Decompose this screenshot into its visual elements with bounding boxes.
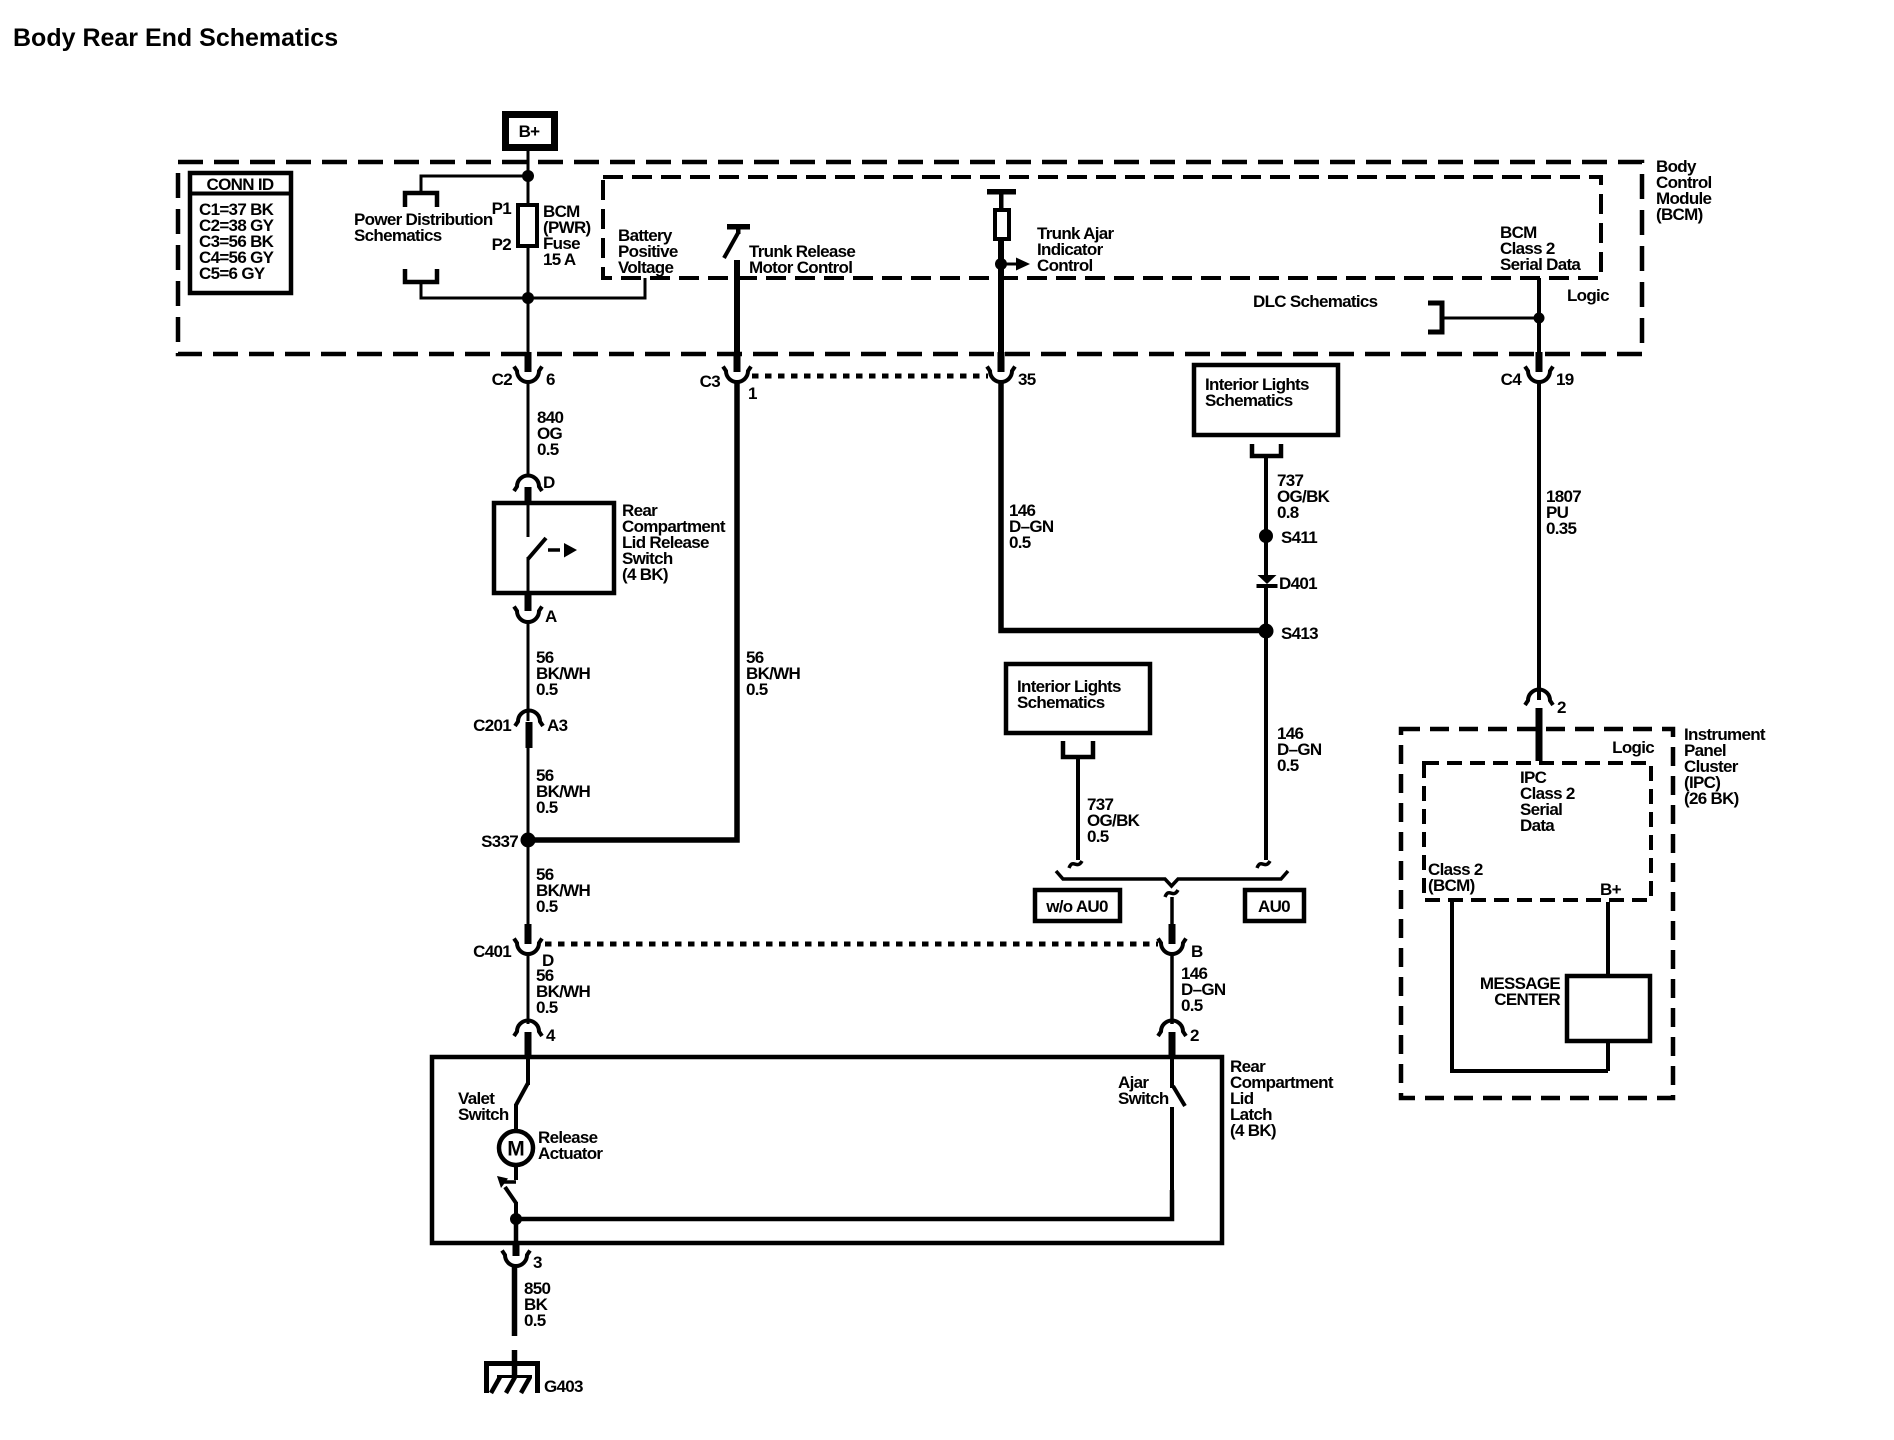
rear compartment lid latch box bbox=[432, 1057, 1222, 1243]
dotted harness line C401 to B bbox=[545, 942, 1158, 947]
svg-text:C3: C3 bbox=[700, 372, 721, 391]
wire C4 to IPC connector 2 bbox=[1537, 382, 1541, 700]
svg-text:Switch: Switch bbox=[458, 1105, 509, 1124]
svg-text:0.5: 0.5 bbox=[524, 1311, 546, 1330]
svg-text:C201: C201 bbox=[473, 716, 511, 735]
wire C201 to S337 bbox=[527, 748, 530, 840]
wire B+ down to junction bbox=[527, 151, 530, 176]
svg-text:0.5: 0.5 bbox=[1277, 756, 1299, 775]
svg-text:0.35: 0.35 bbox=[1546, 519, 1577, 538]
svg-text:(26 BK): (26 BK) bbox=[1684, 789, 1739, 808]
connector B (latch harness) bbox=[1158, 924, 1203, 961]
wire break squiggle (merged output) bbox=[1165, 890, 1178, 897]
connector pin 4 (latch) bbox=[514, 1021, 556, 1059]
rear compartment lid release switch S bbox=[494, 501, 726, 593]
IPC instrument panel cluster outer dashed box bbox=[1401, 729, 1673, 1098]
wire power distribution lower bracket to bus bbox=[421, 278, 645, 298]
svg-text:Logic: Logic bbox=[1612, 738, 1654, 757]
wire D401 to S413 bbox=[1264, 588, 1268, 632]
B+ power symbol bbox=[506, 115, 555, 148]
svg-text:D401: D401 bbox=[1279, 574, 1317, 593]
resistor: trunk ajar indicator pull-up bbox=[987, 189, 1016, 239]
svg-text:Body Rear End Schematics: Body Rear End Schematics bbox=[13, 24, 338, 52]
wire 35 branch down and to S413 bbox=[1001, 382, 1266, 631]
wire merge to connector B bbox=[1170, 897, 1174, 926]
actuator driven switch with actuation arrow bbox=[497, 1165, 516, 1219]
connector pin 35 bbox=[987, 352, 1036, 389]
IPC inner logic dashed box bbox=[1424, 763, 1651, 900]
svg-text:(4 BK): (4 BK) bbox=[1230, 1121, 1276, 1140]
svg-text:0.8: 0.8 bbox=[1277, 503, 1299, 522]
connector A (lid release switch) bbox=[514, 593, 557, 626]
wire S337 to C401 bbox=[527, 840, 530, 926]
svg-text:0.5: 0.5 bbox=[1181, 996, 1203, 1015]
svg-text:C2: C2 bbox=[492, 370, 513, 389]
svg-text:C4: C4 bbox=[1501, 370, 1523, 389]
svg-text:0.5: 0.5 bbox=[536, 998, 558, 1017]
svg-text:Schematics: Schematics bbox=[1205, 391, 1293, 410]
splice node S337 bbox=[521, 833, 536, 848]
svg-text:(BCM): (BCM) bbox=[1428, 876, 1475, 895]
fuse BCM (PWR) Fuse 15 A bbox=[492, 176, 591, 269]
svg-text:0.5: 0.5 bbox=[746, 680, 768, 699]
svg-text:6: 6 bbox=[546, 370, 555, 389]
svg-text:Control: Control bbox=[1037, 256, 1093, 275]
svg-text:Switch: Switch bbox=[1118, 1089, 1169, 1108]
svg-text:D: D bbox=[543, 473, 555, 492]
ground G403 bbox=[484, 1361, 583, 1396]
splice node S413 bbox=[1259, 624, 1274, 639]
option merge bracket bbox=[1056, 871, 1288, 886]
svg-text:B+: B+ bbox=[1600, 880, 1622, 899]
svg-text:0.5: 0.5 bbox=[537, 440, 559, 459]
wire resistor to pin 35 bbox=[998, 239, 1004, 355]
svg-text:Data: Data bbox=[1520, 816, 1555, 835]
wire B to pin 2 bbox=[1170, 954, 1174, 1024]
reference bracket under lower interior lights box bbox=[1063, 741, 1093, 757]
node junction actuator to ajar return bbox=[510, 1213, 522, 1225]
wire lower interior lights to option merge bbox=[1076, 757, 1080, 860]
svg-text:Schematics: Schematics bbox=[354, 226, 442, 245]
connector C4 pin 19 bbox=[1501, 352, 1574, 389]
node junction at fuse top bbox=[522, 170, 534, 182]
Power Distribution Schematics reference brackets bbox=[354, 193, 493, 282]
wire C2 to connector D bbox=[527, 382, 530, 475]
connector pin 3 (latch bottom) bbox=[502, 1242, 542, 1272]
svg-text:P1: P1 bbox=[492, 199, 512, 218]
svg-text:1: 1 bbox=[748, 384, 757, 403]
splice node S411 bbox=[1259, 529, 1273, 543]
wire S411 to D401 bbox=[1264, 536, 1268, 576]
transistor output: trunk release motor control driver bbox=[724, 224, 855, 277]
svg-text:0.5: 0.5 bbox=[536, 897, 558, 916]
connector D (lid release switch) bbox=[514, 473, 555, 504]
wire A to C201 bbox=[527, 622, 530, 721]
connector C3 pin 1 bbox=[700, 352, 757, 403]
diode D401 bbox=[1257, 574, 1318, 593]
wire break squiggle (AU0 leg) bbox=[1257, 861, 1270, 868]
svg-text:A: A bbox=[545, 607, 557, 626]
wire pin 3 to ground (with break) bbox=[512, 1266, 518, 1336]
option label box AU0 bbox=[1245, 890, 1304, 921]
reference bracket under upper interior lights box bbox=[1252, 444, 1281, 456]
wire junction to power distribution bracket bbox=[421, 176, 528, 191]
svg-text:C5=6 GY: C5=6 GY bbox=[199, 264, 266, 283]
BCM inner dashed box bbox=[603, 177, 1601, 278]
wire class 2 (BCM) leg to message center bbox=[1452, 902, 1608, 1071]
svg-text:C401: C401 bbox=[473, 942, 511, 961]
svg-text:Actuator: Actuator bbox=[538, 1144, 603, 1163]
DLC reference bracket bbox=[1428, 303, 1442, 332]
svg-text:P2: P2 bbox=[492, 235, 512, 254]
node junction on serial data line bbox=[1534, 313, 1545, 324]
wire interior lights to S411 bbox=[1264, 456, 1268, 536]
connector C2 pin 6 bbox=[492, 352, 555, 389]
svg-text:Serial Data: Serial Data bbox=[1500, 255, 1581, 274]
svg-text:0.5: 0.5 bbox=[1087, 827, 1109, 846]
svg-text:4: 4 bbox=[546, 1026, 556, 1045]
wire B+ leg to message center bbox=[1606, 902, 1610, 976]
wire S337 to C3 branch (horizontal and vertical riser) bbox=[528, 382, 737, 840]
wire break squiggle (w/o AU0 leg) bbox=[1069, 861, 1082, 868]
dotted harness line C3 to 35 bbox=[752, 374, 988, 379]
svg-text:M: M bbox=[507, 1138, 525, 1161]
svg-text:w/o AU0: w/o AU0 bbox=[1045, 897, 1108, 916]
valet switch bbox=[458, 1057, 528, 1132]
node junction at fuse bottom bus bbox=[522, 292, 534, 304]
svg-text:S411: S411 bbox=[1281, 528, 1317, 547]
svg-text:A3: A3 bbox=[547, 716, 568, 735]
svg-text:15 A: 15 A bbox=[543, 250, 576, 269]
svg-text:S337: S337 bbox=[481, 832, 518, 851]
svg-text:CENTER: CENTER bbox=[1494, 990, 1560, 1009]
svg-text:Schematics: Schematics bbox=[1017, 693, 1105, 712]
node trunk ajar sense junction with arrow bbox=[995, 224, 1115, 275]
wire ajar switch return (horizontal) bbox=[516, 1190, 1172, 1219]
wire DLC bracket to serial data line bbox=[1442, 317, 1539, 320]
connector ID table bbox=[188, 173, 293, 293]
motor M release actuator bbox=[499, 1128, 603, 1165]
connector pin 2 (IPC) bbox=[1525, 690, 1566, 762]
svg-text:(BCM): (BCM) bbox=[1656, 205, 1703, 224]
svg-text:B: B bbox=[1191, 942, 1203, 961]
svg-text:G403: G403 bbox=[544, 1377, 583, 1396]
svg-text:Logic: Logic bbox=[1567, 286, 1609, 305]
connector pin 2 (latch) bbox=[1158, 1021, 1199, 1059]
connector C201 pin A3 bbox=[473, 711, 567, 749]
svg-text:DLC Schematics: DLC Schematics bbox=[1253, 292, 1378, 311]
option label box w/o AU0 bbox=[1035, 890, 1120, 921]
svg-text:AU0: AU0 bbox=[1258, 897, 1290, 916]
wire C401 to pin 4 bbox=[527, 954, 530, 1024]
interior lights schematics box (upper) bbox=[1194, 365, 1338, 435]
BCM Body Control Module outer dashed box bbox=[178, 162, 1642, 354]
wire BCM class2 serial data to C4 pin bbox=[1537, 278, 1541, 355]
svg-text:CONN ID: CONN ID bbox=[207, 175, 274, 194]
svg-text:3: 3 bbox=[533, 1253, 542, 1272]
svg-text:Motor Control: Motor Control bbox=[749, 258, 852, 277]
svg-text:0.5: 0.5 bbox=[536, 680, 558, 699]
wire junction down through box to pin 3 bbox=[514, 1219, 519, 1244]
svg-text:2: 2 bbox=[1557, 698, 1566, 717]
wire S413 down to option merge bbox=[1264, 631, 1268, 860]
wire fuse to C2 pin bbox=[527, 246, 530, 355]
svg-text:35: 35 bbox=[1018, 370, 1036, 389]
svg-text:B+: B+ bbox=[519, 122, 541, 141]
connector C401 pin D bbox=[473, 924, 554, 970]
svg-text:19: 19 bbox=[1556, 370, 1574, 389]
svg-text:0.5: 0.5 bbox=[1009, 533, 1031, 552]
svg-text:(4 BK): (4 BK) bbox=[622, 565, 668, 584]
message center box bbox=[1480, 974, 1650, 1041]
svg-text:0.5: 0.5 bbox=[536, 798, 558, 817]
svg-text:2: 2 bbox=[1190, 1026, 1199, 1045]
svg-text:Voltage: Voltage bbox=[618, 258, 673, 277]
ajar switch bbox=[1118, 1057, 1185, 1192]
wire message center bottom to class 2 leg bbox=[1606, 1041, 1610, 1071]
interior lights schematics box (lower) bbox=[1006, 664, 1150, 733]
svg-text:S413: S413 bbox=[1281, 624, 1318, 643]
wire trunk release driver to C3 pin bbox=[734, 260, 740, 355]
